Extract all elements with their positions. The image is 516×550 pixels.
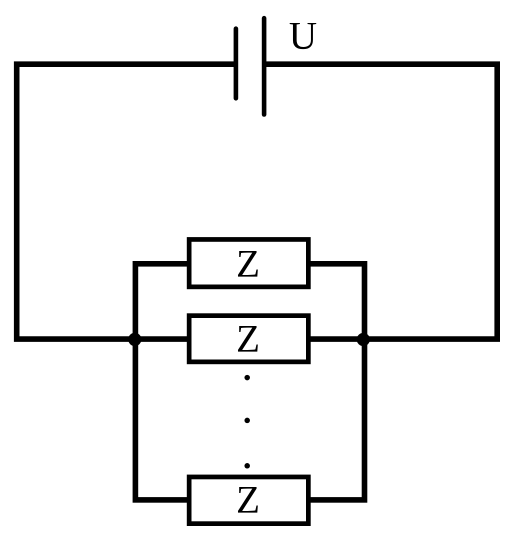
node junction dot right	[357, 333, 370, 346]
svg-text:Z: Z	[236, 479, 260, 522]
svg-text:Z: Z	[236, 242, 260, 285]
svg-text:Z: Z	[236, 318, 260, 361]
impedance Z1 box	[189, 239, 308, 286]
svg-text:U: U	[289, 14, 317, 57]
ellipsis dot 3	[244, 463, 250, 469]
wire outer loop: top side, left side, bottom main row, right side	[17, 64, 498, 339]
battery U negative plate (short bar)	[234, 29, 239, 99]
ellipsis dot 2	[244, 418, 250, 424]
battery U positive plate (long bar)	[262, 18, 267, 114]
ellipsis dot 1	[244, 375, 250, 381]
impedance Z3 box	[189, 477, 308, 524]
wire parallel-bus frame: left bus, right bus, row1 wire, row3 wire	[135, 264, 364, 500]
impedance Z2 box	[189, 316, 308, 362]
node junction dot left	[128, 333, 141, 346]
